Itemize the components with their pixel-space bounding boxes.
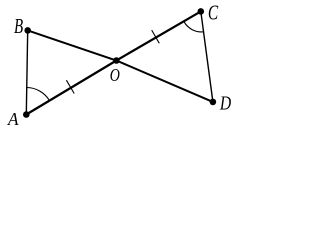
node C dot: [198, 8, 205, 15]
node A dot: [23, 111, 30, 118]
tick mark on AO: [66, 80, 74, 93]
svg-text:O: O: [110, 65, 120, 85]
node O dot: [113, 57, 120, 64]
angle arc at A: [27, 88, 50, 101]
tick mark on OC: [152, 30, 160, 43]
svg-text:A: A: [7, 109, 19, 129]
angle arc at C: [184, 21, 204, 32]
wire segment AC through O: [26, 11, 201, 114]
svg-text:B: B: [14, 15, 23, 38]
svg-text:D: D: [219, 92, 231, 114]
wire segment BD through O: [28, 30, 213, 102]
svg-text:C: C: [208, 1, 219, 24]
node D dot: [210, 99, 217, 106]
node B dot: [24, 27, 31, 34]
wire segment AB: [26, 30, 27, 114]
wire segment CD: [201, 11, 213, 102]
